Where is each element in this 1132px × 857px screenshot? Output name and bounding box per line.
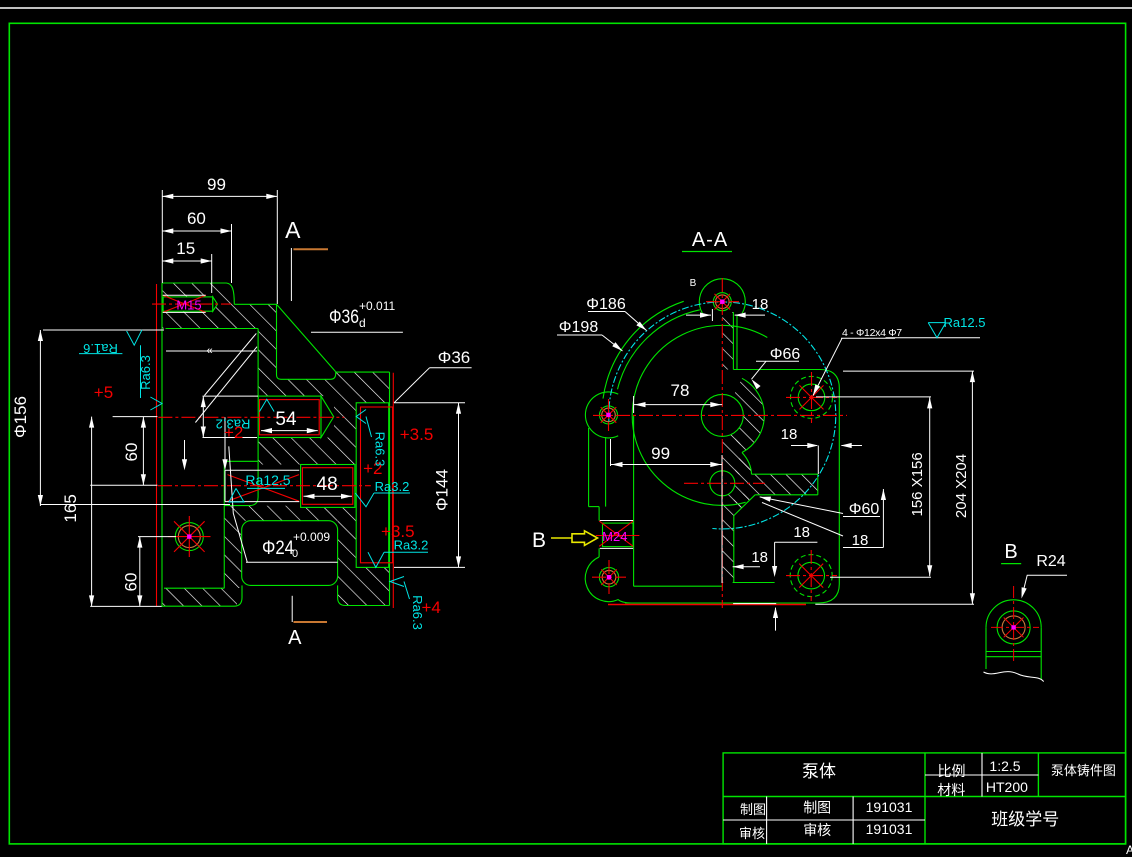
svg-text:d: d [359,316,366,330]
svg-text:Ra6.3: Ra6.3 [410,595,425,630]
svg-text:60: 60 [122,443,141,462]
svg-text:4 - Φ12x4 Φ7: 4 - Φ12x4 Φ7 [842,327,902,339]
svg-text:A: A [288,627,302,649]
svg-text:204 X204: 204 X204 [953,454,970,518]
svg-text:Ra3.2: Ra3.2 [216,417,251,432]
svg-text:«: « [206,345,212,357]
svg-text:A-A: A-A [692,229,728,251]
svg-text:Ra3.2: Ra3.2 [394,538,429,553]
svg-text:191031: 191031 [866,799,913,815]
svg-text:Φ24: Φ24 [262,538,294,559]
svg-text:制图: 制图 [740,802,766,817]
svg-text:M24: M24 [602,529,627,544]
svg-text:18: 18 [751,549,768,566]
svg-text:99: 99 [207,175,226,194]
svg-text:A: A [1126,843,1132,857]
svg-text:制图: 制图 [803,800,831,816]
svg-text:材料: 材料 [937,782,965,798]
svg-text:审核: 审核 [803,822,831,838]
svg-text:Ra1.6: Ra1.6 [83,341,118,356]
svg-text:+0.011: +0.011 [359,299,395,313]
svg-text:Φ60: Φ60 [849,501,880,518]
svg-text:60: 60 [122,573,141,592]
svg-text:Ra6.3: Ra6.3 [373,432,388,467]
svg-text:+0.009: +0.009 [293,530,330,544]
svg-text:78: 78 [671,381,690,400]
svg-text:B: B [532,529,546,552]
svg-text:R24: R24 [1036,553,1065,570]
svg-text:15: 15 [176,239,195,258]
svg-text:18: 18 [752,296,769,313]
svg-text:54: 54 [275,409,297,430]
svg-text:B: B [1004,541,1017,563]
svg-text:泵体: 泵体 [802,762,836,781]
svg-text:Ra12.5: Ra12.5 [944,315,986,330]
svg-text:165: 165 [61,494,80,522]
svg-text:18: 18 [852,532,869,549]
svg-text:Φ144: Φ144 [433,469,452,511]
svg-text:HT200: HT200 [986,779,1028,795]
svg-text:156 X156: 156 X156 [909,452,926,516]
svg-text:Φ36: Φ36 [438,348,470,367]
svg-text:+3.5: +3.5 [400,425,434,444]
svg-text:M15: M15 [176,298,201,313]
svg-text:Ra6.3: Ra6.3 [138,355,153,390]
svg-text:泵体铸件图: 泵体铸件图 [1051,763,1116,778]
svg-text:99: 99 [651,444,670,463]
svg-text:班级学号: 班级学号 [991,810,1059,829]
svg-text:48: 48 [317,474,338,495]
svg-text:Φ186: Φ186 [586,296,626,313]
svg-text:+5: +5 [94,383,113,402]
svg-text:审核: 审核 [739,826,765,841]
svg-text:1:2.5: 1:2.5 [989,758,1020,774]
svg-text:比例: 比例 [938,763,966,779]
svg-text:Φ36: Φ36 [329,307,359,328]
svg-text:Φ156: Φ156 [11,396,30,438]
svg-text:191031: 191031 [866,821,913,837]
svg-text:Ra12.5: Ra12.5 [245,472,290,488]
svg-text:Ra3.2: Ra3.2 [375,479,410,494]
svg-text:60: 60 [187,209,206,228]
svg-text:A: A [285,217,301,243]
svg-text:18: 18 [781,426,798,443]
svg-text:Φ66: Φ66 [770,346,801,363]
svg-text:18: 18 [793,524,810,541]
svg-text:B: B [690,278,697,289]
svg-text:Φ198: Φ198 [559,319,599,336]
svg-text:0: 0 [292,548,298,560]
